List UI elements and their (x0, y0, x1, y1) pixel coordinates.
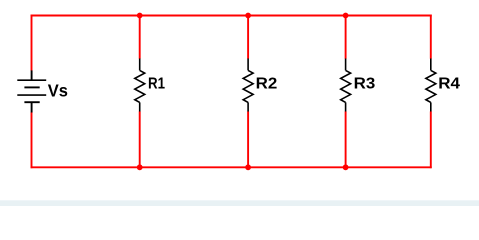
junction top R3 (343, 13, 349, 19)
wire left rail top (source top) (31, 15, 33, 71)
wire R1 bottom (139, 111, 141, 168)
wire left rail bottom (source bottom) (31, 112, 33, 168)
svg-text:R2: R2 (256, 76, 278, 93)
resistor R4 (426, 59, 436, 112)
wire top rail (31, 15, 432, 17)
wire R4 top (right rail) (430, 15, 432, 59)
wire bottom rail (31, 166, 432, 168)
junction bottom R2 (245, 164, 251, 170)
svg-text:R3: R3 (354, 76, 376, 93)
wire R3 bottom (345, 111, 347, 168)
wire R4 bottom (right rail) (430, 111, 432, 168)
wire R3 top (345, 15, 347, 59)
resistor R1 (135, 59, 145, 112)
junction bottom R3 (343, 164, 349, 170)
resistor R2 (243, 59, 253, 112)
svg-text:R4: R4 (438, 76, 460, 93)
wire R1 top (139, 15, 141, 59)
svg-text:R1: R1 (148, 76, 165, 93)
battery Vs (17, 70, 46, 112)
junction top R1 (137, 13, 143, 19)
svg-text:Vs: Vs (48, 80, 68, 100)
junction bottom R1 (137, 164, 143, 170)
junction top R2 (245, 13, 251, 19)
bottom status band (0, 200, 479, 206)
resistor R3 (341, 59, 351, 112)
wire R2 top (247, 15, 249, 59)
wire R2 bottom (247, 111, 249, 168)
